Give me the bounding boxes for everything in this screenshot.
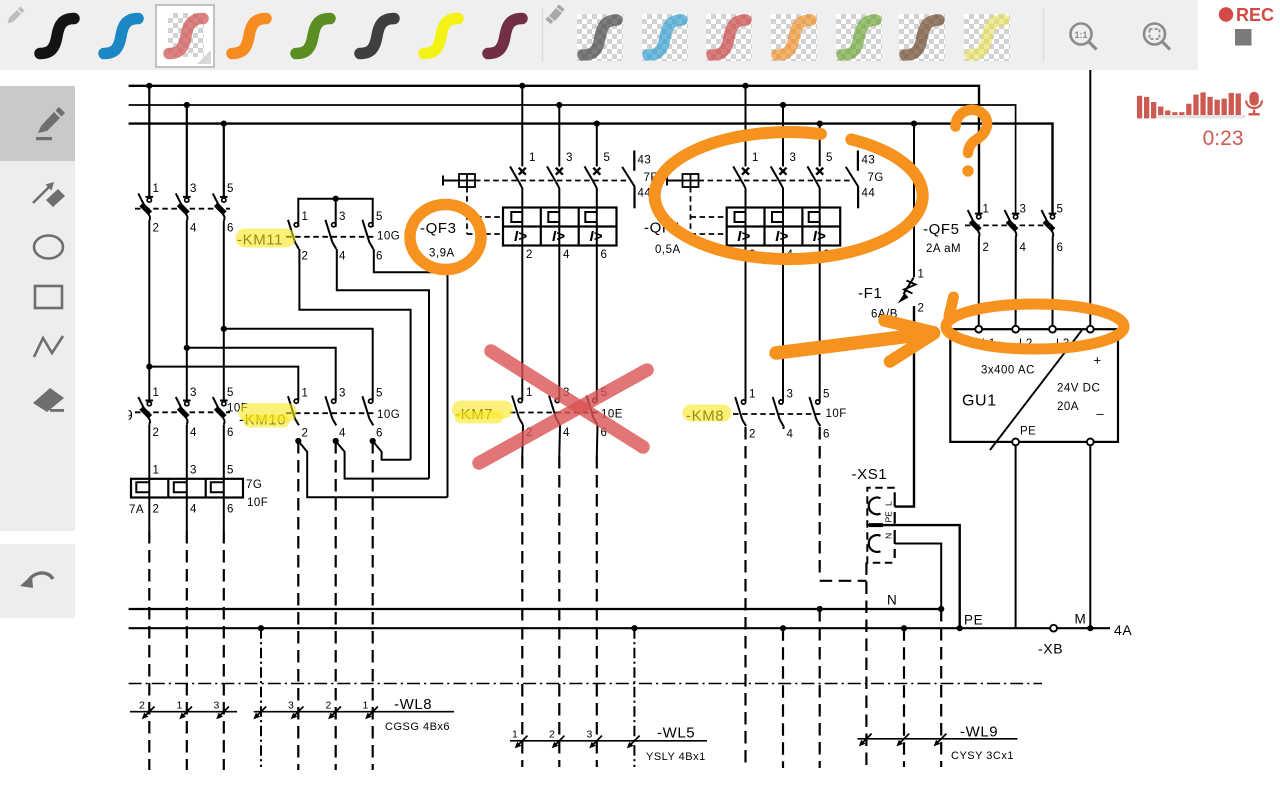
linkage row2 left: [135, 411, 230, 413]
svg-text:1: 1: [752, 152, 759, 164]
svg-text:N: N: [884, 533, 894, 539]
KM11 out pole3 cross to x447.5: [374, 249, 448, 497]
F1 feed: [913, 124, 915, 277]
svg-text:1: 1: [153, 183, 160, 195]
svg-text:3: 3: [790, 152, 797, 164]
PE core WL8: [260, 628, 262, 767]
breaker QF5 poles: [968, 210, 983, 238]
svg-text:3: 3: [190, 387, 197, 399]
F1 to XS1 L: [895, 306, 914, 507]
QF3 mech link box: [443, 174, 475, 187]
svg-text:M: M: [1075, 612, 1087, 627]
yellow highlight KM11: [245, 238, 1083, 421]
eraser tool icon: [33, 388, 64, 412]
F1 fuse-disconnector symbol: [898, 278, 916, 304]
svg-text:4: 4: [563, 427, 570, 439]
linkage QF4: [699, 180, 852, 182]
separator 2: [1043, 8, 1045, 62]
svg-text:2: 2: [526, 249, 533, 261]
linkage KM8: [733, 413, 824, 415]
svg-text:4: 4: [190, 223, 197, 235]
svg-text:7G: 7G: [868, 172, 884, 184]
contactor KM11 poles: [288, 220, 299, 249]
svg-text:5: 5: [376, 211, 383, 223]
breaker QF3 poles: [510, 166, 526, 188]
svg-text:–: –: [1097, 406, 1105, 421]
svg-text:6: 6: [376, 251, 383, 263]
svg-text:44: 44: [862, 188, 876, 200]
linkage QF3: [475, 180, 627, 182]
cable core numbers: [139, 700, 593, 741]
feed wire KM10 pole1: [149, 367, 298, 401]
svg-text:5: 5: [826, 152, 833, 164]
svg-text:4: 4: [190, 427, 197, 439]
N bus: [129, 608, 942, 610]
svg-text:3: 3: [190, 465, 197, 477]
QF3 aux contact 43/44: [622, 151, 635, 209]
magnifier 1:1: [1071, 24, 1097, 50]
svg-text:3: 3: [288, 700, 294, 712]
cable drop KM8 pole1: [744, 427, 746, 765]
highlighter icon (disabled): [545, 5, 564, 25]
bus L1: [129, 86, 979, 214]
svg-text:2: 2: [153, 223, 160, 235]
svg-text:3x400 AC: 3x400 AC: [981, 365, 1035, 377]
pointer/arrow tool icon: [33, 182, 65, 207]
svg-text:2: 2: [153, 504, 160, 516]
mic icon: [1249, 92, 1258, 106]
svg-text:4: 4: [339, 251, 346, 263]
WL5 cable line: [510, 740, 707, 742]
WL8 cable line: [130, 711, 237, 713]
svg-text:3: 3: [339, 388, 346, 400]
XS1 socket contacts: [869, 492, 895, 558]
svg-text:7A: 7A: [129, 504, 144, 516]
XS1 rotated pin labels: [884, 501, 894, 539]
svg-text:10F: 10F: [826, 408, 847, 420]
rectangle tool icon: [35, 286, 62, 308]
svg-text:10G: 10G: [377, 409, 400, 421]
wire drop pole3 left: [223, 124, 225, 197]
opaque stroke swatches: [40, 19, 74, 54]
svg-text:3,9A: 3,9A: [429, 248, 455, 260]
breaker QF4 poles: [733, 166, 749, 188]
KM8 pole3 drop + branch: [819, 427, 821, 578]
contactor KM10 poles: [288, 396, 299, 425]
ring around GU1 terminals: [946, 304, 1124, 349]
svg-text:I>: I>: [552, 228, 565, 245]
svg-text:CGSG 4Bx6: CGSG 4Bx6: [385, 721, 450, 733]
svg-text:6: 6: [227, 504, 234, 516]
svg-text:6: 6: [376, 428, 383, 440]
svg-text:6: 6: [227, 223, 234, 235]
level bars: [1137, 92, 1241, 118]
KM11 top bus: [298, 199, 372, 227]
polyline tool icon: [34, 336, 63, 357]
svg-text:0:23: 0:23: [1203, 127, 1244, 150]
svg-text:4: 4: [190, 504, 197, 516]
svg-text:6: 6: [823, 429, 830, 441]
svg-text:1: 1: [177, 700, 183, 712]
svg-text:5: 5: [1057, 204, 1064, 216]
svg-text:2: 2: [549, 729, 555, 741]
svg-text:REC: REC: [1236, 5, 1274, 25]
GU1 terminals: [975, 326, 982, 333]
yellow highlight KM9 edge: [1082, 416, 1084, 418]
svg-text:10F: 10F: [247, 497, 268, 509]
svg-text:0,5A: 0,5A: [655, 244, 681, 256]
svg-text:4: 4: [1020, 242, 1027, 254]
svg-text:4: 4: [339, 428, 346, 440]
KM10 pole3 bottom link: [373, 441, 411, 460]
svg-text:5: 5: [227, 387, 234, 399]
svg-text:-WL8: -WL8: [394, 696, 432, 713]
XS1 N wire: [895, 544, 942, 610]
svg-text:1: 1: [512, 729, 518, 741]
wire drop pole1 left: [148, 86, 150, 196]
svg-text:2: 2: [302, 251, 309, 263]
switch row2 left poles: [138, 397, 153, 425]
N drop WL9: [940, 609, 942, 767]
QF3 interlock verticals: [466, 187, 468, 234]
svg-text:5: 5: [227, 183, 234, 195]
linkage KM11: [286, 236, 376, 238]
GU1 minus down to M: [1089, 445, 1091, 628]
XS1 socket box: [867, 488, 894, 563]
svg-text:L: L: [884, 501, 894, 506]
QF3 pole tails into box: [521, 188, 523, 208]
svg-text:2: 2: [918, 303, 925, 315]
GU1 PE down: [1015, 445, 1017, 628]
svg-text:6: 6: [1057, 242, 1064, 254]
svg-text:24V DC: 24V DC: [1057, 383, 1100, 395]
svg-text:YSLY 4Bx1: YSLY 4Bx1: [646, 751, 706, 763]
svg-text:+: +: [1094, 353, 1102, 368]
svg-text:N: N: [887, 593, 897, 608]
svg-text:-F1: -F1: [858, 285, 882, 302]
circle around QF3: [410, 205, 481, 270]
yellow highlight KM10: [248, 403, 287, 422]
QF5 bottom wires to GU1: [978, 238, 980, 326]
KM11 out pole2 cross to x429: [337, 249, 429, 479]
cable drop x783 below PE: [782, 628, 784, 768]
svg-text:2: 2: [139, 700, 145, 712]
svg-text:PE: PE: [884, 511, 894, 523]
red X cross over KM7: [479, 351, 647, 463]
svg-text:PE: PE: [964, 613, 983, 628]
svg-text:3: 3: [566, 152, 573, 164]
svg-text:20A: 20A: [1057, 401, 1079, 413]
clipped "9" label at page edge: [125, 407, 133, 424]
svg-text:1: 1: [153, 465, 160, 477]
svg-text:PE: PE: [1020, 426, 1036, 438]
svg-text:1: 1: [302, 211, 309, 223]
QF4 drops: [745, 86, 747, 167]
enclosure boundary: [129, 683, 1042, 685]
bus L2: [129, 105, 1016, 213]
KM11 out pole1 cross to x410.6: [299, 249, 410, 460]
svg-text:3: 3: [787, 389, 794, 401]
row2 left wires into overload box: [148, 425, 150, 498]
svg-text:I>: I>: [514, 228, 527, 245]
XB terminal on PE bus: [1050, 625, 1057, 632]
QF4 pole tails into box: [745, 188, 747, 208]
svg-text:1: 1: [529, 152, 536, 164]
svg-text:4: 4: [563, 249, 570, 261]
svg-text:6: 6: [227, 427, 234, 439]
undo icon: [20, 573, 53, 588]
svg-text:1: 1: [749, 389, 756, 401]
KM8 pole2 short tail: [782, 426, 784, 429]
svg-text:5: 5: [823, 389, 830, 401]
svg-text:2: 2: [326, 700, 332, 712]
contactor KM8 poles: [735, 397, 746, 426]
svg-text:2A aM: 2A aM: [926, 243, 961, 255]
svg-text:7G: 7G: [246, 479, 262, 491]
KM10 pole2 bottom link: [336, 441, 429, 479]
svg-text:3: 3: [1020, 204, 1027, 216]
transparent highlighter swatches: [577, 14, 623, 61]
arrow to GU1: [776, 334, 930, 354]
QF4 interlock verticals: [690, 187, 692, 234]
QF4 overload box: [727, 208, 841, 246]
ellipse tool icon: [34, 236, 63, 259]
svg-text:3: 3: [587, 729, 593, 741]
svg-text:1: 1: [526, 387, 533, 399]
svg-text:-XS1: -XS1: [852, 466, 888, 483]
svg-text:CYSY 3Cx1: CYSY 3Cx1: [951, 750, 1014, 762]
svg-text:-WL9: -WL9: [960, 724, 998, 741]
orange annotations: [410, 110, 1124, 362]
svg-text:I>: I>: [813, 228, 826, 245]
svg-text:I>: I>: [775, 228, 788, 245]
component name labels: [237, 220, 1132, 742]
svg-text:5: 5: [604, 152, 611, 164]
cable drops left group: [148, 531, 150, 770]
cable drops KM10: [297, 441, 299, 770]
svg-text:3: 3: [339, 211, 346, 223]
bus L3: [129, 124, 1053, 214]
svg-text:GU1: GU1: [962, 393, 997, 410]
XS1 drop: [865, 563, 867, 768]
svg-text:4A: 4A: [1114, 622, 1132, 638]
svg-text:2: 2: [983, 242, 990, 254]
left thermal box 7G/10F: [131, 479, 243, 498]
top feed to GU1 + terminal: [1089, 70, 1091, 326]
linkage KM10: [286, 412, 376, 414]
svg-text:43: 43: [638, 155, 652, 167]
KM10 pole1 bottom link: [298, 441, 447, 497]
svg-text:I>: I>: [737, 228, 750, 245]
svg-text:-QF5: -QF5: [923, 221, 960, 238]
yellow highlight KM7: [461, 401, 504, 419]
QF3 drops: [521, 86, 523, 167]
feed wire KM10 pole3: [224, 329, 373, 401]
QF4 wires through box down to KM8: [745, 208, 747, 402]
svg-text:1: 1: [302, 388, 309, 400]
svg-text:-XB: -XB: [1038, 641, 1063, 657]
svg-text:5: 5: [376, 388, 383, 400]
folded corner of selected tile: [197, 50, 211, 64]
GU1 power supply box: [950, 329, 1118, 450]
yellow highlight KM8: [691, 405, 723, 422]
svg-text:5: 5: [227, 465, 234, 477]
contactor KM7 poles: [512, 396, 523, 425]
svg-text:6: 6: [601, 249, 608, 261]
separator: [542, 8, 544, 62]
svg-text:1: 1: [153, 387, 160, 399]
svg-text:3: 3: [190, 183, 197, 195]
main switch Q row1 poles: [138, 193, 153, 221]
svg-text:-QF3: -QF3: [420, 220, 457, 237]
WL9 cable line: [858, 738, 1018, 740]
svg-text:43: 43: [862, 155, 876, 167]
QF4 aux contact 43/44: [846, 151, 859, 209]
question mark: [956, 110, 988, 153]
svg-text:1: 1: [983, 204, 990, 216]
svg-text:2: 2: [749, 429, 756, 441]
QF4 mech link box: [667, 174, 699, 187]
cable drops KM7: [521, 456, 523, 767]
svg-text:-WL5: -WL5: [657, 725, 695, 742]
QF3 wires through box down to KM7: [521, 208, 523, 401]
svg-text:10G: 10G: [377, 231, 400, 243]
svg-text:3: 3: [214, 700, 220, 712]
svg-text:4: 4: [787, 429, 794, 441]
linkage QF5: [965, 224, 1056, 226]
linkage row1 left: [135, 208, 230, 210]
meter baseline: [1158, 115, 1246, 118]
PE core WL5: [633, 628, 635, 767]
svg-text:1: 1: [363, 700, 369, 712]
wire drop pole2 left: [186, 105, 188, 196]
pen tool icon (selected): [36, 107, 65, 140]
selected red swatch tile: [155, 4, 215, 68]
svg-text:2: 2: [153, 427, 160, 439]
PE drop WL9: [903, 628, 905, 767]
svg-text:2: 2: [302, 428, 309, 440]
toolbar pen icon (disabled): [8, 7, 25, 24]
big ellipse around QF4: [655, 132, 923, 259]
svg-text:9: 9: [125, 407, 133, 424]
KM7 tails: [521, 425, 524, 456]
XS1 PE wire: [867, 525, 960, 628]
feed wire KM10 pole2: [187, 348, 336, 401]
linkage KM7: [510, 412, 601, 414]
left poles lower wires to junctions: [148, 221, 150, 400]
svg-text:1: 1: [918, 269, 925, 281]
QF3 overload box: [503, 208, 617, 246]
magnifier fit: [1144, 24, 1170, 50]
svg-text:I>: I>: [590, 228, 603, 245]
PE bus: [129, 627, 1110, 629]
